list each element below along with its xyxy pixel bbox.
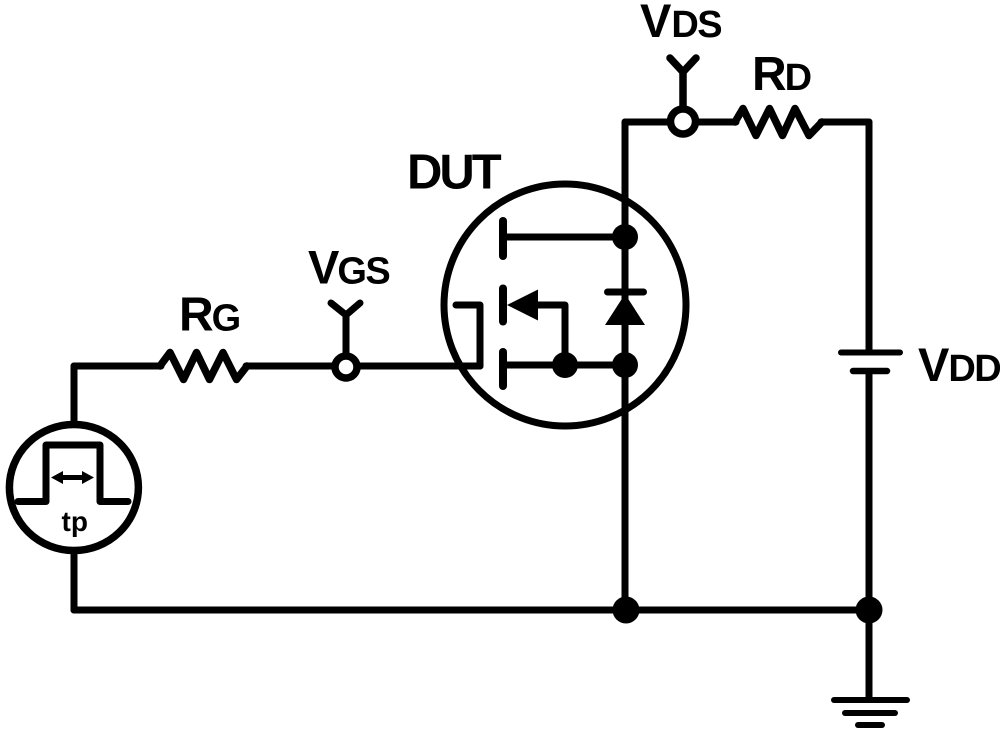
pulse width arrowhead right [82, 471, 94, 484]
wire top horizontal left of RD [625, 119, 736, 126]
test point VDS circle [671, 109, 696, 134]
svg-text:tp: tp [62, 506, 88, 537]
junction dot drain [612, 224, 638, 250]
svg-text:RD: RD [752, 48, 811, 101]
resistor RG [160, 353, 247, 380]
pulse width arrow line [59, 475, 86, 480]
DUT channel segment top [499, 221, 507, 256]
svg-text:RG: RG [179, 289, 240, 342]
wire RG to DUT gate [246, 363, 480, 370]
ground [834, 700, 907, 725]
test point VGS circle [335, 356, 357, 378]
wire top horizontal right of RD [821, 119, 869, 126]
resistor RD [735, 109, 822, 136]
wire RG row: left segment [74, 363, 161, 370]
body diode cathode bar [608, 289, 644, 296]
wire left vertical lower (pulse gen to bottom) [71, 553, 78, 610]
junction dot bottom right [856, 597, 883, 624]
DUT body arrow line [534, 305, 565, 365]
DUT drain connection [505, 234, 625, 241]
wire main vertical (drain rail) [622, 122, 629, 610]
svg-text:VDD: VDD [918, 338, 1000, 391]
test point VGS probe [331, 303, 360, 353]
battery VDD plates [841, 353, 900, 372]
wire right vertical upper (to battery) [866, 122, 873, 350]
wire ground stem [866, 610, 873, 697]
pulse generator waveform [18, 445, 128, 502]
svg-text:VDS: VDS [640, 0, 721, 47]
pulse width arrowhead left [51, 471, 63, 484]
transistor DUT circle [444, 184, 686, 426]
junction dot source-rail [612, 352, 638, 378]
DUT body arrowhead [507, 290, 538, 321]
DUT channel segment middle [499, 289, 507, 322]
wire bottom horizontal [74, 607, 869, 614]
test point VDS probe [670, 58, 696, 108]
svg-text:DUT: DUT [407, 146, 502, 200]
body diode triangle [605, 294, 645, 325]
junction dot bottom middle [613, 597, 640, 624]
junction dot source-body [552, 352, 578, 378]
pulse generator circle [9, 425, 138, 551]
DUT gate electrode bracket [456, 305, 480, 366]
DUT source connection [505, 362, 625, 369]
wire left vertical upper (RG corner to pulse gen) [71, 366, 78, 424]
wire right vertical lower (battery to bottom) [866, 374, 873, 610]
DUT channel segment bottom [499, 352, 507, 386]
svg-text:VGS: VGS [308, 241, 389, 294]
